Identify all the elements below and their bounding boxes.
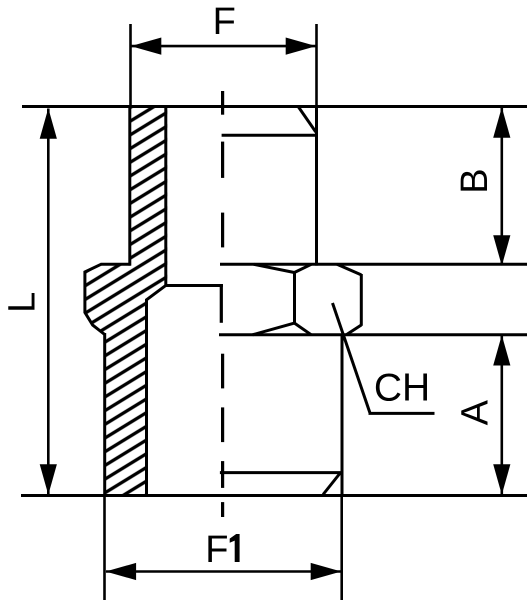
svg-text:F: F <box>205 529 228 571</box>
svg-text:A: A <box>455 399 497 425</box>
svg-text:CH: CH <box>374 366 430 409</box>
svg-text:L: L <box>2 292 44 313</box>
svg-text:B: B <box>454 168 496 193</box>
svg-text:F: F <box>213 1 236 43</box>
